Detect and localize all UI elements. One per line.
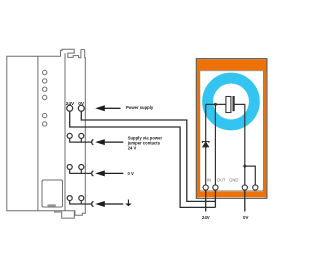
svg-text:Power supply: Power supply	[126, 105, 154, 110]
svg-text:OUT: OUT	[217, 178, 226, 183]
svg-text:0V: 0V	[243, 215, 248, 220]
svg-text:0V: 0V	[78, 101, 85, 107]
svg-text:0 V: 0 V	[128, 171, 134, 176]
svg-text:GND: GND	[229, 178, 238, 183]
svg-text:IN: IN	[207, 178, 211, 183]
svg-text:24V: 24V	[66, 101, 75, 107]
svg-text:24 V: 24 V	[128, 146, 137, 151]
svg-text:24V: 24V	[202, 215, 210, 220]
